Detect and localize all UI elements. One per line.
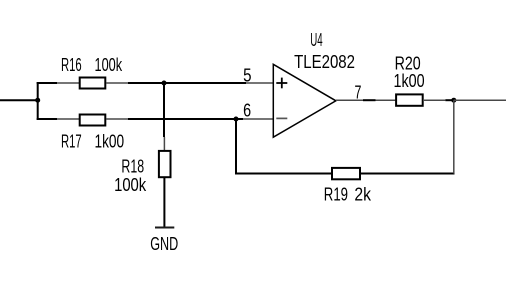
svg-text:6: 6 bbox=[243, 101, 251, 121]
wire: output net to right edge bbox=[454, 99, 506, 101]
svg-text:TLE2082: TLE2082 bbox=[294, 52, 355, 72]
wire: vertical feedback up to output node bbox=[453, 100, 455, 173]
svg-text:GND: GND bbox=[150, 234, 178, 254]
svg-text:5: 5 bbox=[243, 66, 251, 86]
wire: net R17 to op-amp pin 6 bbox=[128, 118, 243, 120]
svg-text:U4: U4 bbox=[310, 30, 322, 50]
node A junction dot bbox=[162, 81, 167, 86]
svg-text:R16: R16 bbox=[61, 55, 82, 75]
wire: op-amp pin 6 lead bbox=[243, 118, 273, 120]
wire: R19 right to below output node bbox=[360, 173, 455, 175]
op-amp U4 bbox=[273, 64, 336, 137]
wire: input net from left edge bbox=[0, 99, 38, 101]
svg-text:7: 7 bbox=[355, 83, 362, 103]
resistor R16 bbox=[80, 78, 106, 89]
wire: R16 right pin lead bbox=[106, 82, 128, 84]
svg-text:R18: R18 bbox=[121, 157, 144, 177]
svg-text:2k: 2k bbox=[354, 185, 371, 205]
wire: vertical split at input node bbox=[37, 82, 39, 120]
wire: feedback net to R19 left bbox=[235, 173, 332, 175]
wire: op-amp pin 7 output lead bbox=[336, 99, 363, 101]
svg-text:1k00: 1k00 bbox=[394, 71, 425, 91]
node: output junction dot bbox=[451, 98, 456, 103]
ground bbox=[155, 227, 174, 229]
wire: R18 bottom to ground bbox=[163, 178, 165, 227]
svg-text:100k: 100k bbox=[114, 175, 147, 195]
resistor R18 bbox=[159, 151, 171, 177]
svg-text:R17: R17 bbox=[61, 132, 82, 152]
node: input junction dot bbox=[35, 98, 40, 103]
wire: R18 top pin lead bbox=[163, 137, 165, 151]
wire: R17 right pin lead bbox=[106, 118, 128, 120]
wire: net to R16 left bbox=[37, 82, 57, 84]
wire: net to R17 left bbox=[37, 118, 57, 120]
wire: R20 right pin lead bbox=[424, 99, 445, 101]
wire: net R16 to op-amp pin 5 bbox=[128, 82, 246, 84]
wire: node A down to R18 bbox=[163, 83, 165, 137]
wire: op-amp pin 5 lead bbox=[246, 82, 273, 84]
svg-text:R19: R19 bbox=[324, 185, 348, 205]
resistor R19 bbox=[332, 168, 360, 179]
svg-text:1k00: 1k00 bbox=[95, 132, 125, 152]
node B junction dot bbox=[234, 117, 239, 122]
wire: R20 left pin lead bbox=[376, 99, 397, 101]
svg-text:100k: 100k bbox=[95, 55, 123, 75]
wire: node B down to feedback row bbox=[235, 119, 237, 175]
resistor R20 bbox=[396, 94, 423, 105]
wire: R16 left pin lead bbox=[57, 82, 79, 84]
wire: R17 left pin lead bbox=[57, 118, 79, 120]
wire: net pin7 to R20 bbox=[363, 99, 376, 101]
resistor R17 bbox=[80, 115, 106, 126]
wire: net R20 to output node bbox=[445, 99, 453, 101]
